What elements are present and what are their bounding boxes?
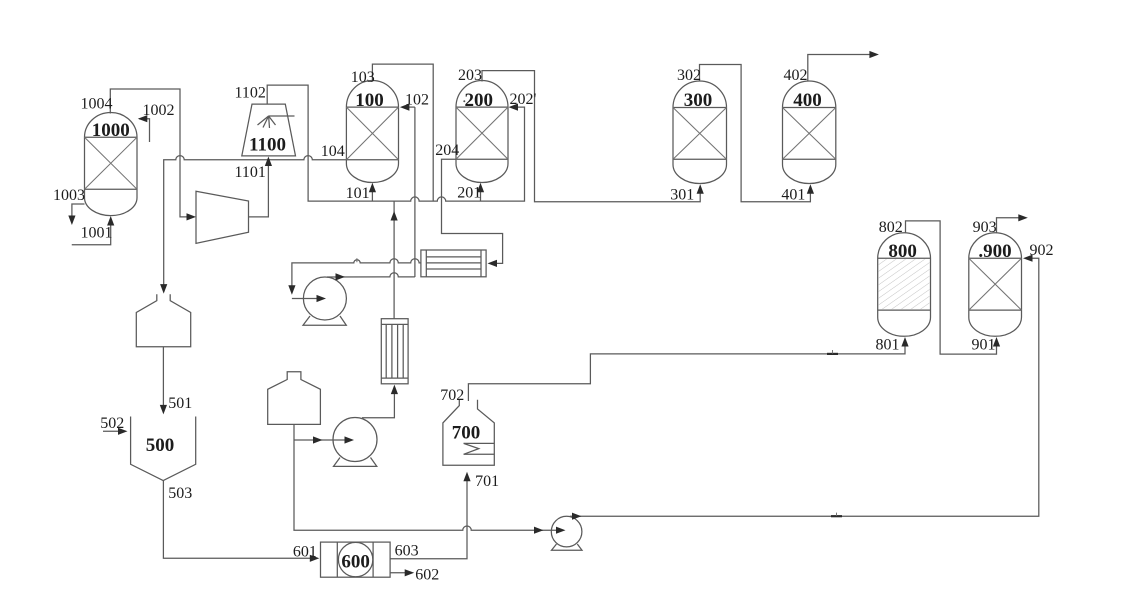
svg-text:501: 501 [168, 395, 192, 412]
svg-text:902: 902 [1030, 242, 1054, 259]
pipe 1102 to manifold and 202 [267, 85, 524, 201]
pipe 702 to 801 [468, 342, 905, 402]
vessel 300 [673, 81, 727, 184]
svg-text:102: 102 [405, 92, 429, 109]
pipe tankA to hopper 501 [162, 347, 164, 410]
pipe 503 to 601 [163, 481, 314, 559]
svg-text:1001: 1001 [81, 225, 113, 242]
pump P1 (recycle pump) [303, 277, 346, 325]
svg-text:502: 502 [100, 415, 124, 432]
svg-text:101: 101 [346, 185, 370, 202]
svg-text:600: 600 [341, 552, 370, 573]
pipe vertical HX to manifold [393, 201, 395, 319]
pipe 201 riser [480, 187, 482, 201]
vessel 200 [456, 81, 508, 183]
svg-text:103: 103 [351, 69, 375, 86]
svg-text:.900: .900 [978, 241, 1011, 262]
vertical heat exchanger [381, 319, 408, 384]
pipe pump2 outlet to vertical HX [362, 390, 394, 418]
compressor 1101 unit [196, 191, 249, 243]
svg-text:901: 901 [972, 337, 996, 354]
scrubber 1100 [242, 104, 296, 156]
pipe 502 into hopper [103, 430, 123, 432]
pipe 204 from 200 to heat exchanger [442, 159, 503, 263]
pipe 104 line to tank A [164, 156, 347, 289]
pipe 603 riser to 701 [390, 477, 467, 559]
svg-text:1102: 1102 [235, 85, 266, 102]
vessel 1000 [85, 113, 138, 216]
svg-text:1101: 1101 [235, 164, 266, 181]
pipe 103 overhead loop of 100 [372, 64, 433, 201]
svg-text:202': 202' [510, 91, 537, 108]
svg-text:301: 301 [670, 186, 694, 203]
junction tick on pump3 outlet line [831, 515, 842, 517]
svg-text:1000: 1000 [92, 120, 130, 141]
pipe 602 outlet [390, 572, 409, 574]
svg-text:603: 603 [395, 543, 419, 560]
vessel 900 [969, 233, 1022, 336]
pipe 402 exit [808, 55, 874, 82]
vessel 400 [783, 81, 836, 184]
pipe 302 overhead loop of 300 feeding 401 [700, 65, 811, 202]
svg-text:1004: 1004 [81, 96, 113, 113]
svg-text:602: 602 [415, 567, 439, 584]
pipe into pump2 [294, 439, 348, 441]
svg-text:500: 500 [146, 435, 175, 456]
svg-text:104: 104 [321, 143, 345, 160]
svg-text:203: 203 [458, 67, 482, 84]
svg-text:601: 601 [293, 544, 317, 561]
svg-text:701: 701 [475, 473, 499, 490]
pump P3 [551, 516, 582, 550]
svg-text:100: 100 [355, 90, 384, 111]
svg-text:401: 401 [781, 186, 805, 203]
pipe 1004 overhead of 1000 to compressor [110, 89, 192, 217]
pipe 1101 compressor to 1100 [249, 161, 269, 217]
spray nozzle of 1100 [258, 116, 295, 128]
pipe tankB drain to pump3 [294, 424, 560, 530]
svg-text:400: 400 [793, 90, 822, 111]
pipe pump3 outlet to 902 [570, 258, 1039, 516]
svg-text:801: 801 [876, 337, 900, 354]
svg-text:903: 903 [973, 219, 997, 236]
pipe 1003 drain [72, 204, 85, 220]
svg-text:700: 700 [452, 423, 481, 444]
svg-text:1100: 1100 [249, 135, 286, 156]
svg-text:702: 702 [440, 387, 464, 404]
pipe 102 into 100 [404, 106, 415, 108]
pipe into pump1 [292, 298, 321, 300]
svg-text:1003: 1003 [53, 187, 85, 204]
pipe 101 riser [371, 187, 373, 201]
svg-text:302: 302 [677, 67, 701, 84]
dot artifact before 200 [463, 100, 465, 102]
svg-text:1002: 1002 [143, 102, 175, 119]
svg-text:300: 300 [684, 90, 713, 111]
tank A (left storage tank) [136, 294, 190, 347]
vessel 100 [346, 81, 398, 183]
pipe 203 overhead loop of 200 feeding 301 [482, 71, 700, 202]
svg-text:204: 204 [435, 142, 459, 159]
flash drum 700 [443, 400, 494, 466]
tank B (middle storage tank) [268, 372, 321, 425]
pipe 1002 stub into 1000 [139, 119, 150, 142]
svg-text:800: 800 [888, 241, 917, 262]
svg-text:503: 503 [168, 485, 192, 502]
pipe 1001 feed [72, 221, 111, 245]
hopper 500 [131, 417, 196, 481]
svg-text:201: 201 [457, 185, 481, 202]
svg-text:200: 200 [465, 90, 494, 111]
pump P2 [333, 418, 377, 467]
svg-text:802: 802 [879, 219, 903, 236]
vessel 800 [878, 233, 931, 336]
pipe 802 to 901 [906, 221, 997, 354]
filter 600 [321, 542, 391, 577]
junction tick on 702-801 line [827, 353, 838, 355]
pipe 903 exit [997, 218, 1023, 233]
svg-text:402: 402 [784, 67, 808, 84]
horizontal heat exchanger [421, 250, 486, 277]
pipe HX outlet to pump1 [292, 259, 421, 290]
pipe pump1 outlet to 102 [327, 273, 415, 277]
